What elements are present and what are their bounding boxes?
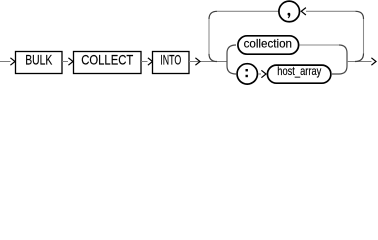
svg-text:COLLECT: COLLECT (81, 53, 133, 68)
arrowhead into INTO (148, 58, 153, 65)
svg-text:collection: collection (244, 36, 292, 50)
wire: collection row to right merge (300, 44, 340, 46)
wire: loop top-left corner curve (209, 11, 217, 19)
keyword box COLLECT (74, 52, 142, 74)
wire: left branch bracket (227, 45, 236, 74)
wire: loop up-right curve from main (355, 54, 364, 62)
svg-text:INTO: INTO (160, 53, 181, 68)
node collection (oval) (238, 36, 299, 54)
wire: loop bottom-left curve into main (209, 54, 217, 62)
keyword box INTO (153, 52, 190, 74)
arrowhead into comma (pointing left) (301, 8, 306, 15)
wire: loop left vertical (208, 19, 210, 53)
wire: COLLECT to INTO (141, 61, 148, 63)
colon circle (237, 64, 257, 84)
arrowhead into host_array (261, 70, 266, 77)
keyword box BULK (16, 52, 63, 74)
wire: top line right segment (306, 10, 356, 12)
node host_array (oval) (267, 65, 330, 83)
comma circle (279, 1, 300, 22)
arrowhead into COLLECT (68, 58, 73, 65)
wire: BULK to COLLECT (62, 61, 68, 63)
wire: loop top line (comma to left corner) (217, 10, 279, 12)
wire: loop right vertical (363, 19, 365, 54)
wire: exit line (347, 61, 372, 63)
svg-text:BULK: BULK (25, 53, 53, 68)
exit arrowhead (371, 58, 376, 65)
wire: INTO to branch point (189, 61, 227, 63)
svg-text:host_array: host_array (277, 64, 321, 78)
wire: entry line (0, 61, 11, 63)
arrowhead after INTO (195, 58, 200, 65)
arrowhead into BULK (10, 58, 15, 65)
railroad syntax diagram: bulk_collect_into_clause (0, 0, 378, 91)
wire: colon to host_array (258, 73, 261, 75)
wire: right merge bracket (332, 45, 347, 74)
wire: loop top-right corner curve (356, 11, 364, 19)
